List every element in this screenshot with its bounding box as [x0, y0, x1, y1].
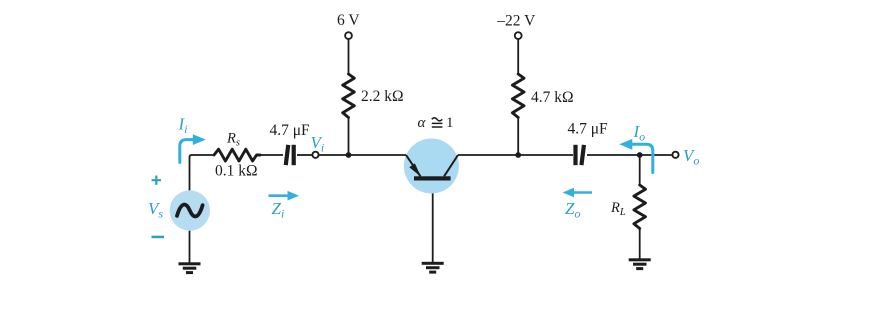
- svg-text:4.7 kΩ: 4.7 kΩ: [531, 89, 574, 106]
- svg-text:4.7 μF: 4.7 μF: [568, 121, 609, 138]
- impedance arrow Zo: [573, 191, 592, 194]
- transistor Q1 emitter arrowhead (PNP, pointing to base): [409, 163, 421, 176]
- junction dot: RL node: [637, 152, 643, 158]
- svg-text:Ii: Ii: [178, 115, 188, 137]
- svg-text:Rs: Rs: [226, 131, 240, 149]
- wire: R2 to collector node: [517, 118, 519, 156]
- transistor Q1 highlight circle: [404, 139, 459, 194]
- label - polarity: [152, 236, 165, 239]
- svg-text:RL: RL: [610, 200, 626, 218]
- current arrow Ii: [180, 140, 193, 163]
- wire: 6V supply down to R1: [348, 39, 350, 74]
- transistor Q1 collector line: [444, 155, 458, 176]
- transistor Q1 emitter line: [406, 155, 421, 176]
- wire: source top corner to Rs: [190, 155, 215, 191]
- svg-text:α: α: [418, 115, 427, 131]
- ground (RL): [629, 258, 651, 270]
- wire: RL node down to RL: [639, 155, 641, 185]
- wire: transistor base to ground: [432, 181, 434, 263]
- junction dot: collector node: [515, 152, 521, 158]
- svg-text:Vi: Vi: [311, 133, 325, 155]
- impedance arrow Zi: [269, 194, 290, 197]
- wire: R1 to emitter node: [348, 118, 350, 156]
- svg-text:Vo: Vo: [683, 146, 699, 168]
- wire: collector to C2: [458, 154, 573, 156]
- wire: source bottom to ground: [189, 231, 191, 263]
- source Vs sine symbol: [177, 205, 203, 217]
- junction dot: emitter node: [346, 152, 352, 158]
- capacitor C2 plates: [573, 145, 586, 166]
- label alpha congruent 1: [418, 115, 454, 131]
- resistor R2 4.7 kOhm: [512, 74, 524, 118]
- svg-text:2.2 kΩ: 2.2 kΩ: [361, 88, 404, 105]
- svg-text:Io: Io: [633, 122, 646, 144]
- transistor Q1 base bar: [414, 176, 451, 180]
- svg-text:0.1 kΩ: 0.1 kΩ: [215, 163, 258, 180]
- node Vi (open terminal circle): [312, 152, 318, 158]
- source Vs circle: [170, 190, 210, 230]
- svg-text:4.7 μF: 4.7 μF: [270, 122, 311, 139]
- wire: C1 to node Vi: [297, 154, 312, 156]
- supply terminal -22 V (open circle): [515, 32, 522, 39]
- wire: Rs to C1: [260, 154, 283, 156]
- svg-text:Zi: Zi: [272, 199, 285, 221]
- svg-text:6 V: 6 V: [337, 12, 360, 29]
- wire: RL to ground: [639, 229, 641, 259]
- resistor RL: [634, 185, 646, 229]
- capacitor C1 plates: [284, 145, 296, 166]
- wire: -22V supply down to R2: [517, 39, 519, 74]
- resistor R1 2.2 kOhm: [343, 74, 355, 118]
- svg-text:Zo: Zo: [565, 199, 580, 221]
- ground (transistor base): [422, 262, 444, 274]
- svg-text:Vs: Vs: [148, 199, 163, 221]
- svg-text:–22 V: –22 V: [496, 12, 536, 29]
- wire: node Vi to transistor emitter: [319, 154, 406, 156]
- label + polarity: [152, 176, 161, 185]
- svg-text:1: 1: [446, 115, 454, 131]
- ground (source): [179, 262, 201, 274]
- node Vo (open terminal circle): [672, 152, 678, 158]
- wire: C2 to output terminal Vo: [587, 154, 672, 156]
- resistor Rs: [214, 149, 260, 161]
- supply terminal 6 V (open circle): [345, 32, 352, 39]
- current arrow Io: [632, 144, 653, 172]
